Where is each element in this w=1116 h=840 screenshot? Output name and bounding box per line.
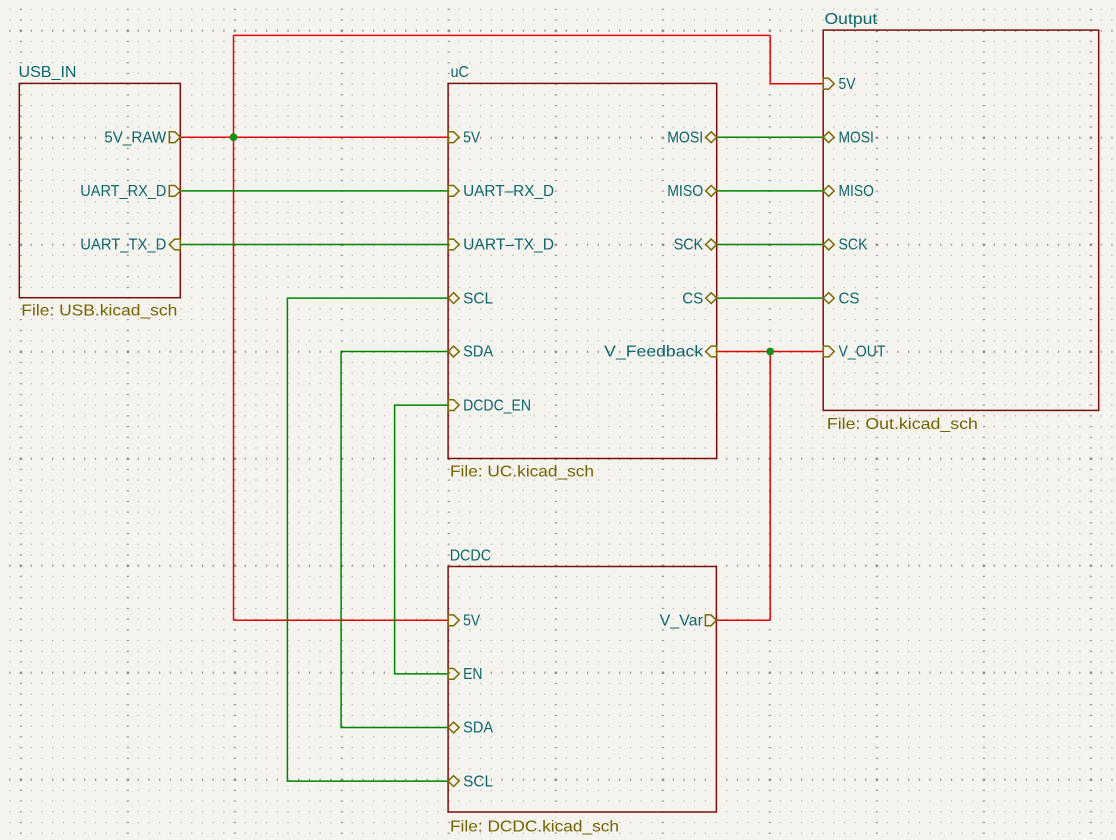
svg-text:File: Out.kicad_sch: File: Out.kicad_sch <box>827 416 978 433</box>
svg-text:SDA: SDA <box>463 344 493 361</box>
svg-text:DCDC: DCDC <box>450 547 491 564</box>
svg-text:File: DCDC.kicad_sch: File: DCDC.kicad_sch <box>450 818 619 835</box>
svg-text:EN: EN <box>463 666 482 683</box>
svg-text:UART_RX_D: UART_RX_D <box>80 183 166 200</box>
svg-text:File: UC.kicad_sch: File: UC.kicad_sch <box>450 463 594 480</box>
svg-text:Output: Output <box>825 11 878 28</box>
svg-text:MISO: MISO <box>839 183 874 200</box>
svg-text:File: USB.kicad_sch: File: USB.kicad_sch <box>21 302 177 319</box>
svg-text:DCDC_EN: DCDC_EN <box>463 397 531 414</box>
svg-text:MISO: MISO <box>667 183 703 200</box>
svg-text:5V: 5V <box>463 613 480 630</box>
svg-text:V_OUT: V_OUT <box>839 344 886 361</box>
svg-text:SCK: SCK <box>839 237 868 254</box>
svg-text:SCL: SCL <box>463 773 493 790</box>
svg-text:V_Feedback: V_Feedback <box>604 344 704 361</box>
svg-text:UART–TX_D: UART–TX_D <box>463 237 554 254</box>
svg-text:uC: uC <box>451 64 469 81</box>
svg-text:CS: CS <box>682 290 703 307</box>
svg-text:UART_TX_D: UART_TX_D <box>80 237 166 254</box>
svg-text:SDA: SDA <box>463 720 493 737</box>
svg-text:5V: 5V <box>839 76 856 93</box>
svg-text:5V_RAW: 5V_RAW <box>104 129 167 146</box>
svg-text:SCL: SCL <box>463 290 493 307</box>
svg-text:V_Var: V_Var <box>660 613 704 630</box>
svg-text:USB_IN: USB_IN <box>19 64 77 81</box>
svg-text:CS: CS <box>839 290 860 307</box>
svg-text:5V: 5V <box>463 129 480 146</box>
svg-text:MOSI: MOSI <box>839 129 874 146</box>
svg-text:SCK: SCK <box>674 237 704 254</box>
svg-text:UART–RX_D: UART–RX_D <box>463 183 554 200</box>
svg-text:MOSI: MOSI <box>667 129 703 146</box>
